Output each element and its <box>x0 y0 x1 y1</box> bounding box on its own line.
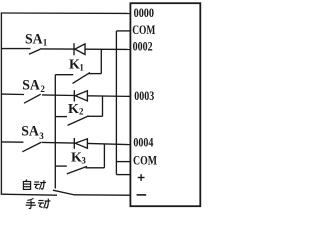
svg-text:K: K <box>68 102 79 117</box>
svg-text:SA: SA <box>25 32 43 48</box>
svg-text:COM: COM <box>133 152 157 167</box>
svg-text:SA: SA <box>21 124 39 140</box>
svg-text:1: 1 <box>43 38 48 48</box>
svg-text:0002: 0002 <box>133 39 153 54</box>
svg-text:SA: SA <box>22 78 40 94</box>
svg-text:0004: 0004 <box>133 134 153 149</box>
svg-text:1: 1 <box>79 63 84 73</box>
svg-text:2: 2 <box>79 107 84 117</box>
svg-text:0003: 0003 <box>134 88 154 103</box>
svg-text:0000: 0000 <box>134 5 154 20</box>
svg-text:COM: COM <box>132 22 155 37</box>
svg-text:K: K <box>71 151 82 166</box>
svg-text:3: 3 <box>39 131 44 141</box>
svg-text:3: 3 <box>81 156 86 166</box>
svg-text:2: 2 <box>40 84 45 94</box>
svg-text:K: K <box>69 58 80 73</box>
